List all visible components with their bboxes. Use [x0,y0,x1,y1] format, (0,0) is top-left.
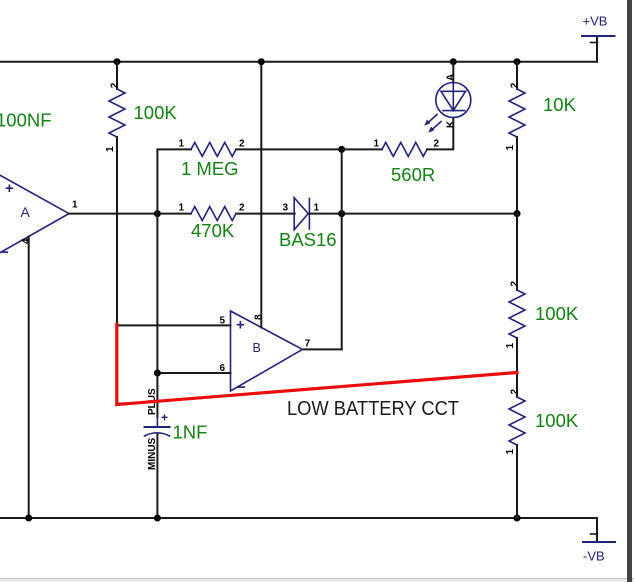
svg-text:2: 2 [239,139,245,150]
svg-text:−: − [0,244,9,261]
node junction 100K top rail [114,58,121,65]
wire top +V rail [0,61,597,63]
wire op-amp B output net [302,149,341,349]
wire op-amp A output [69,213,191,215]
node junction output row / 100K [514,210,521,217]
svg-text:2: 2 [509,82,520,88]
svg-text:MINUS: MINUS [147,437,158,470]
window right edge bar [627,0,632,582]
svg-text:1: 1 [373,139,379,150]
svg-text:+: + [236,317,245,334]
wire 560R pin1 [342,148,382,150]
svg-text:2: 2 [509,281,520,287]
wire to op-amp B pin6 [157,372,230,374]
LED D1 [424,62,471,133]
node junction 1MEG/560R/opampB [338,146,345,153]
svg-text:1: 1 [505,449,516,455]
svg-text:B: B [253,341,261,355]
svg-text:100K: 100K [535,410,579,431]
svg-text:1NF: 1NF [173,422,208,443]
wire 470K pin2 to diode [236,213,295,215]
svg-text:LOW BATTERY CCT: LOW BATTERY CCT [287,397,459,420]
node junction pin8 rail [258,58,265,65]
resistor 100K right bottom [505,373,579,518]
svg-text:1: 1 [178,139,184,150]
resistor 10K [505,62,577,214]
svg-text:+: + [161,411,168,425]
capacitor 1NF [145,388,208,470]
svg-text:560R: 560R [391,164,435,185]
svg-text:1: 1 [314,203,320,214]
svg-text:A: A [21,204,31,220]
svg-text:100NF: 100NF [0,110,52,131]
svg-text:-VB: -VB [583,549,605,564]
svg-text:+VB: +VB [583,14,608,29]
node junction bottom rail 100K [514,515,521,522]
wire 1 MEG pin2 to node [236,148,342,150]
svg-text:10K: 10K [543,94,577,115]
power symbol -VB [583,518,615,564]
resistor 1 MEG [178,139,245,180]
svg-text:100K: 100K [535,303,579,324]
wire to op-amp B pin5 [117,324,231,326]
node junction 10K rail [514,58,521,65]
svg-text:2: 2 [509,389,520,395]
node junction pin6 / 1NF [154,370,161,377]
node junction LED anode on +V rail [450,58,457,65]
svg-text:BAS16: BAS16 [279,229,337,250]
svg-text:100K: 100K [134,102,178,123]
node junction bottom rail 1NF [154,515,161,522]
svg-text:1: 1 [505,343,516,349]
resistor 100K right top [505,214,579,373]
svg-text:1: 1 [72,200,78,211]
op-amp U1A [0,173,78,261]
window bottom edge bar [0,578,634,582]
svg-text:+: + [5,180,14,197]
svg-text:4: 4 [21,238,32,244]
node junction at op-amp A output [154,210,161,217]
resistor 560R [373,139,439,186]
wire diode cathode to 10K node [309,213,517,215]
wire branch up to 1 MEG [157,149,191,213]
svg-text:2: 2 [109,82,120,88]
node junction bottom rail pin4 [25,515,32,522]
svg-text:8: 8 [254,314,265,320]
svg-text:1: 1 [178,203,184,214]
svg-text:1: 1 [105,146,116,152]
svg-text:470K: 470K [191,220,235,241]
svg-text:1 MEG: 1 MEG [181,158,239,179]
svg-text:K: K [446,120,457,128]
resistor 100K top left [105,62,177,326]
op-amp U1B [219,311,310,396]
svg-text:2: 2 [239,203,245,214]
svg-text:7: 7 [305,339,311,350]
power symbol +VB [582,14,615,62]
svg-text:A: A [446,74,457,81]
svg-text:1: 1 [505,145,516,151]
resistor 470K [178,203,245,242]
wire op-amp B pin8 to +V rail [260,62,262,328]
op-amp A pin 4 wire [21,237,32,519]
wire 1NF branch [156,214,158,518]
diode BAS16 [279,198,337,250]
svg-text:2: 2 [434,139,440,150]
wire 560R pin2 to LED cathode [427,118,453,150]
wire bottom -V rail [0,517,597,519]
svg-text:3: 3 [282,203,288,214]
node junction diode output [338,210,345,217]
red highlight line low battery cct [117,325,517,405]
